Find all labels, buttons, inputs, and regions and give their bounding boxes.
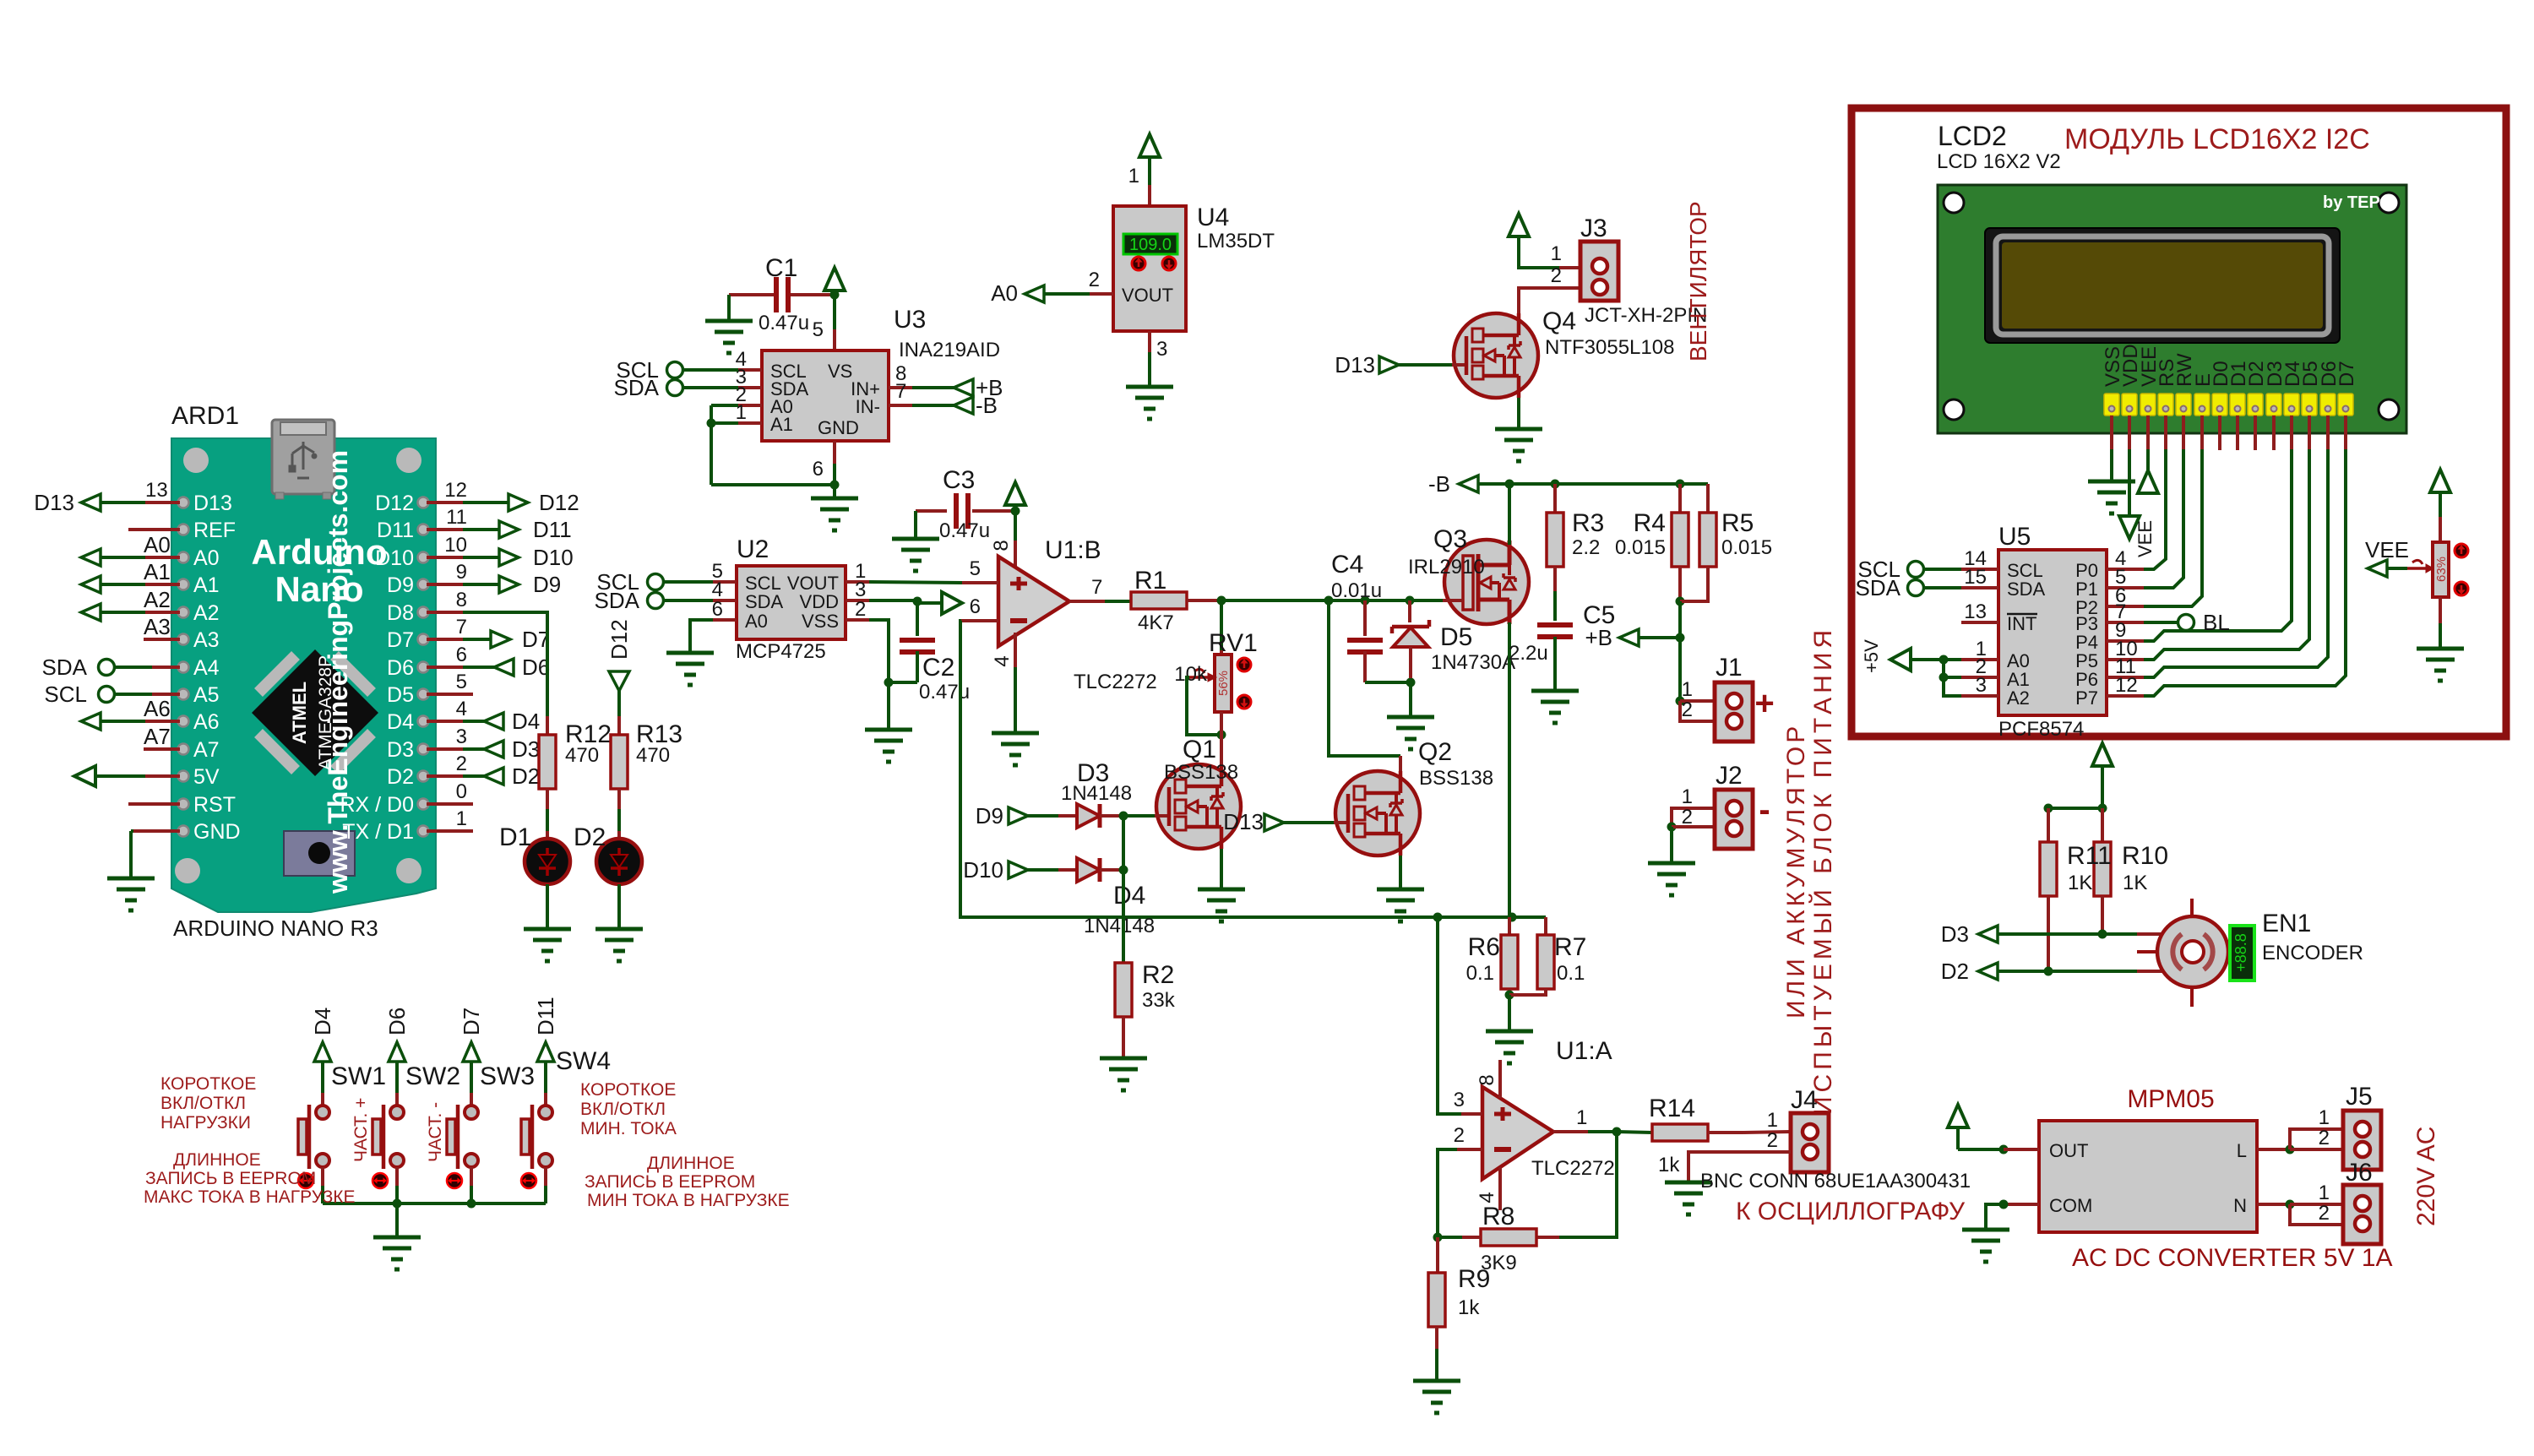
svg-text:2: 2	[1682, 698, 1693, 721]
ground	[811, 497, 858, 501]
wire	[1553, 484, 1557, 513]
junction	[1406, 678, 1416, 687]
junction	[1433, 1233, 1443, 1242]
ground	[1387, 715, 1434, 720]
wire D12 to R13	[617, 691, 621, 716]
wire D13	[145, 501, 180, 504]
svg-text:BL: BL	[2203, 610, 2230, 635]
svg-text:R3: R3	[1572, 509, 1604, 537]
junction	[707, 419, 716, 428]
net flag D13	[1264, 814, 1284, 831]
svg-text:A0: A0	[144, 532, 171, 557]
svg-text:ВКЛ/ОТКЛ: ВКЛ/ОТКЛ	[160, 1094, 246, 1113]
display 109.0	[1123, 234, 1177, 254]
connector J5	[2343, 1111, 2381, 1170]
wire	[2387, 567, 2407, 570]
svg-text:ATMEL: ATMEL	[289, 682, 310, 744]
svg-text:TLC2272: TLC2272	[1531, 1157, 1615, 1180]
wire	[972, 509, 1011, 513]
terminal SDA	[667, 380, 683, 396]
power +5V	[824, 268, 845, 291]
wire	[321, 1062, 324, 1093]
svg-text:D13: D13	[34, 490, 74, 515]
net flag D4	[484, 713, 503, 730]
wire	[2101, 896, 2104, 934]
wire	[2439, 597, 2442, 623]
wire	[1553, 567, 1557, 591]
junction	[1676, 697, 1685, 706]
svg-text:D12: D12	[375, 492, 414, 515]
potentiometer RV1	[1215, 655, 1232, 712]
svg-text:SDA: SDA	[745, 591, 784, 612]
power VEE	[2119, 516, 2140, 539]
net flag VEE	[2368, 560, 2387, 577]
wire	[1944, 676, 1961, 679]
wire	[1944, 677, 1961, 696]
svg-text:A3: A3	[144, 614, 171, 639]
wire P3 BL	[2144, 621, 2178, 624]
wire	[2290, 1148, 2343, 1151]
wire	[729, 293, 777, 296]
svg-text:10k: 10k	[1174, 663, 1208, 686]
wire	[1220, 849, 1223, 889]
connector J4	[1791, 1113, 1829, 1172]
svg-text:COM: COM	[2049, 1195, 2092, 1216]
transistor Q3	[1443, 540, 1529, 624]
svg-text:1: 1	[1767, 1109, 1778, 1132]
wire A0/A1 to gnd	[711, 404, 738, 407]
resistor R11	[2040, 842, 2057, 896]
pin 10	[2107, 658, 2144, 661]
wire	[427, 829, 473, 833]
junction	[830, 291, 840, 300]
svg-text:4: 4	[991, 655, 1014, 666]
wire stub D3	[2272, 416, 2276, 450]
wire	[1678, 484, 1682, 513]
ground	[595, 927, 643, 932]
button up	[1237, 658, 1251, 671]
junction	[467, 1199, 476, 1209]
wire	[544, 1062, 547, 1093]
wire drain	[1508, 484, 1511, 545]
svg-text:D4: D4	[310, 1008, 335, 1035]
wire	[2048, 970, 2137, 973]
terminal SCL	[648, 574, 664, 590]
svg-text:NTF3055L108: NTF3055L108	[1545, 336, 1674, 359]
svg-text:VEE: VEE	[2365, 537, 2409, 562]
net flag D7	[463, 1042, 480, 1062]
svg-text:C1: C1	[765, 254, 797, 282]
junction	[1551, 480, 1560, 489]
svg-text:J4: J4	[1791, 1086, 1818, 1114]
pin 1	[846, 580, 869, 584]
svg-text:0.1: 0.1	[1557, 962, 1585, 985]
svg-text:D12: D12	[539, 490, 579, 515]
encoder EN1	[2137, 899, 2228, 1007]
svg-text:2: 2	[2319, 1127, 2330, 1149]
wiper	[1189, 676, 1208, 679]
svg-text:D8: D8	[387, 601, 414, 625]
power +5V	[1890, 649, 1911, 671]
svg-text:VDD: VDD	[800, 591, 839, 612]
wire	[1100, 868, 1119, 872]
svg-text:1N4148: 1N4148	[1061, 782, 1132, 805]
svg-text:REF: REF	[193, 519, 236, 542]
potentiometer VEE	[2433, 542, 2449, 597]
wire gate pulldown	[1122, 870, 1125, 963]
svg-text:2: 2	[855, 598, 866, 621]
svg-text:A1: A1	[144, 559, 171, 584]
wire VDD	[869, 599, 917, 602]
button up	[2455, 544, 2468, 557]
resistor R13	[611, 735, 628, 789]
svg-text:GND: GND	[818, 417, 859, 438]
wire	[395, 1167, 399, 1186]
svg-text:D11: D11	[377, 519, 414, 542]
wire	[1105, 600, 1131, 603]
op-amp U1:A	[1482, 1087, 1553, 1179]
svg-text:C4: C4	[1331, 551, 1363, 579]
wire	[664, 580, 713, 584]
wire	[916, 601, 919, 636]
junction	[393, 1199, 402, 1209]
junction	[2098, 930, 2107, 939]
wire D9	[427, 583, 463, 586]
LCD pad VEE	[2140, 394, 2156, 416]
net flag D11	[499, 521, 519, 538]
power	[2138, 470, 2158, 493]
resistor R9	[1428, 1273, 1445, 1327]
wire	[1187, 599, 1217, 602]
button down	[1162, 257, 1176, 270]
resistor R3	[1547, 513, 1563, 567]
wire	[1436, 1237, 1439, 1273]
svg-text:-: -	[1759, 791, 1770, 829]
wire -in down	[960, 621, 1433, 917]
wire	[664, 599, 713, 602]
wire	[617, 884, 621, 929]
wire	[2008, 1203, 2039, 1206]
power flag	[942, 592, 962, 614]
wire	[1014, 667, 1017, 733]
LCD pad D7	[2338, 394, 2353, 416]
svg-text:MPM05: MPM05	[2127, 1085, 2214, 1113]
junction	[1406, 596, 1415, 606]
junction	[2286, 1200, 2295, 1209]
net flag D13	[1379, 356, 1399, 373]
LCD module LCD2	[1938, 185, 2406, 433]
wire	[1220, 600, 1223, 650]
svg-text:C3: C3	[943, 466, 975, 494]
ground	[2088, 480, 2135, 484]
pin 4	[2107, 568, 2144, 571]
wire P1	[2144, 586, 2147, 589]
LCD pad D2	[2248, 394, 2263, 416]
wire	[1706, 484, 1710, 513]
svg-text:INA219AID: INA219AID	[899, 339, 1000, 361]
svg-text:63%: 63%	[2434, 557, 2449, 582]
connector J2	[1715, 790, 1753, 849]
svg-text:5: 5	[813, 318, 824, 341]
svg-text:0: 0	[456, 780, 467, 803]
svg-text:МОДУЛЬ LCD16X2 I2C: МОДУЛЬ LCD16X2 I2C	[2064, 123, 2370, 155]
wire VSS	[869, 620, 889, 682]
svg-text:0.1: 0.1	[1466, 962, 1494, 985]
svg-text:R4: R4	[1634, 509, 1666, 537]
svg-text:SDA: SDA	[1856, 575, 1901, 600]
wire	[1363, 600, 1367, 636]
net flag D3	[1978, 926, 1998, 943]
ground	[1531, 689, 1579, 693]
net flag +B	[1619, 629, 1639, 646]
svg-text:ЗАПИСЬ В EEPROM: ЗАПИСЬ В EEPROM	[145, 1169, 316, 1188]
svg-text:RST: RST	[193, 793, 236, 817]
diode D4	[1077, 858, 1100, 882]
junction	[1939, 655, 1949, 665]
junction	[1999, 1200, 2009, 1209]
wire	[787, 293, 830, 296]
svg-text:A5: A5	[193, 683, 220, 707]
svg-text:C2: C2	[922, 654, 954, 682]
wire	[617, 789, 621, 809]
wire	[1028, 814, 1058, 818]
connector J3	[1580, 242, 1618, 301]
wire D7	[2344, 416, 2347, 449]
svg-text:1: 1	[456, 807, 467, 830]
svg-text:RV1: RV1	[1209, 629, 1258, 657]
wire	[2290, 1129, 2343, 1149]
wire D5	[2308, 416, 2311, 449]
svg-text:A7: A7	[193, 738, 220, 762]
touch icon	[521, 1173, 536, 1188]
power supply MPM05	[2039, 1121, 2257, 1232]
svg-text:2: 2	[1454, 1124, 1465, 1147]
ground	[1665, 1181, 1712, 1185]
wire	[1708, 1131, 1743, 1134]
wire L	[2257, 1148, 2286, 1151]
svg-text:D4: D4	[387, 710, 414, 734]
touch icon	[447, 1173, 462, 1188]
svg-text:D7: D7	[2336, 361, 2358, 387]
capacitor C1	[774, 277, 779, 312]
power	[1005, 482, 1025, 505]
net flag D13	[81, 494, 101, 511]
svg-text:D6: D6	[387, 656, 414, 680]
wire	[1519, 288, 1580, 319]
svg-text:6: 6	[970, 595, 981, 618]
svg-text:SW3: SW3	[480, 1062, 535, 1090]
svg-text:МАКС ТОКА В НАГРУЗКЕ: МАКС ТОКА В НАГРУЗКЕ	[144, 1187, 356, 1207]
pin 3	[1461, 1112, 1482, 1116]
wire	[1544, 917, 1547, 935]
svg-text:Q3: Q3	[1433, 525, 1467, 553]
svg-text:D4: D4	[1113, 882, 1145, 910]
junction	[1676, 633, 1685, 643]
svg-text:12: 12	[444, 479, 467, 502]
junction	[830, 481, 840, 490]
svg-text:D3: D3	[387, 738, 414, 762]
svg-text:Q4: Q4	[1542, 307, 1576, 335]
wire D8 to R12	[427, 611, 463, 614]
ground	[705, 319, 753, 323]
wire RS	[2164, 416, 2167, 449]
net flag D3	[484, 741, 503, 758]
net flag D10	[1009, 861, 1028, 878]
ground	[524, 927, 571, 932]
switch SW2	[372, 1105, 404, 1169]
svg-text:EN1: EN1	[2262, 910, 2311, 937]
wire	[1517, 398, 1520, 429]
pin 6	[2107, 605, 2144, 608]
wire	[1680, 567, 1708, 601]
wire	[1672, 825, 1715, 829]
wire D11	[427, 528, 463, 531]
svg-text:1k: 1k	[1458, 1296, 1480, 1319]
wire VEE	[2146, 416, 2150, 449]
pin 12	[2107, 694, 2144, 698]
junction	[2044, 804, 2053, 813]
svg-text:VOUT: VOUT	[1122, 285, 1173, 306]
wire	[1122, 1017, 1125, 1058]
wire	[1678, 567, 1682, 597]
svg-text:НАГРУЗКИ: НАГРУЗКИ	[160, 1113, 251, 1133]
button up	[1132, 257, 1145, 270]
LCD pad VSS	[2104, 394, 2119, 416]
svg-text:J2: J2	[1716, 762, 1743, 790]
net flag D12	[508, 494, 528, 511]
svg-text:TX / D1: TX / D1	[342, 820, 414, 844]
svg-text:D3: D3	[512, 736, 540, 762]
net flag A0	[81, 549, 101, 566]
svg-text:6: 6	[813, 458, 824, 481]
pin 6	[833, 441, 836, 464]
capacitor C2	[900, 638, 935, 643]
svg-text:56%: 56%	[1216, 671, 1231, 696]
wire VOUT to U1:B	[869, 582, 962, 583]
wire to Q2 gate	[1329, 600, 1400, 756]
transistor Q1	[1155, 764, 1241, 849]
svg-text:D3: D3	[1941, 921, 1969, 947]
svg-text:SDA: SDA	[42, 655, 88, 680]
wire SCL	[152, 693, 180, 696]
svg-text:RX / D0: RX / D0	[340, 793, 414, 817]
pin 5	[713, 580, 737, 584]
wire	[2439, 492, 2442, 517]
svg-text:4K7: 4K7	[1138, 611, 1174, 634]
wire	[2290, 1203, 2343, 1206]
svg-text:IRL2910: IRL2910	[1408, 556, 1485, 579]
pin 11	[2107, 676, 2144, 679]
wire D2	[427, 774, 463, 778]
pin 5	[2107, 586, 2144, 589]
touch icon	[298, 1173, 313, 1188]
svg-text:3: 3	[456, 725, 467, 748]
LED D1	[525, 839, 570, 884]
svg-text:0.47u: 0.47u	[939, 519, 990, 542]
svg-text:2: 2	[1767, 1129, 1778, 1152]
terminal SDA	[99, 660, 115, 676]
svg-text:6: 6	[456, 644, 467, 666]
wire	[1409, 682, 1412, 717]
wire	[1399, 363, 1452, 367]
svg-text:J1: J1	[1716, 654, 1743, 682]
svg-text:К ОСЦИЛЛОГРАФУ: К ОСЦИЛЛОГРАФУ	[1736, 1198, 1966, 1225]
svg-text:D13: D13	[193, 492, 232, 515]
junction	[1119, 866, 1128, 875]
terminal BL	[2178, 615, 2194, 631]
LCD pad D6	[2320, 394, 2336, 416]
power	[1948, 1105, 1968, 1127]
svg-text:SW4: SW4	[556, 1047, 611, 1075]
ground	[107, 877, 155, 881]
svg-text:D5: D5	[1440, 623, 1472, 651]
svg-text:D1: D1	[499, 823, 531, 851]
wire D6	[2326, 416, 2330, 449]
svg-text:13: 13	[1964, 600, 1987, 623]
svg-text:A2: A2	[2007, 687, 2030, 709]
power	[2430, 470, 2450, 492]
net flag D7	[491, 631, 510, 648]
svg-text:7: 7	[456, 616, 467, 638]
svg-text:VEE: VEE	[2134, 520, 2156, 557]
net flag A6	[81, 713, 101, 730]
zener diode D5	[1408, 600, 1411, 622]
svg-text:BNC CONN 68UE1AA300431: BNC CONN 68UE1AA300431	[1700, 1170, 1971, 1193]
svg-text:1N4148: 1N4148	[1084, 915, 1155, 937]
svg-text:LCD2: LCD2	[1938, 121, 2007, 151]
wire stub D1	[2236, 416, 2239, 450]
wire	[544, 1167, 547, 1186]
junction	[2044, 967, 2053, 976]
wire	[1508, 917, 1511, 935]
svg-text:ARD1: ARD1	[171, 402, 239, 430]
svg-text:+5V: +5V	[1861, 639, 1882, 673]
wire	[1220, 712, 1223, 731]
wire	[1435, 1327, 1438, 1349]
svg-text:ENCODER: ENCODER	[2262, 942, 2363, 964]
pin 15	[1961, 586, 1998, 589]
wire	[1559, 266, 1580, 269]
net flag D10	[499, 549, 519, 566]
resistor R2	[1115, 963, 1132, 1017]
svg-text:SDA: SDA	[595, 588, 640, 613]
svg-text:SCL: SCL	[44, 682, 87, 707]
svg-text:2.2u: 2.2u	[1509, 642, 1548, 665]
wire wiper short	[1187, 677, 1217, 735]
wire D10	[427, 556, 463, 559]
junction	[2286, 1145, 2295, 1154]
capacitor C4	[1347, 638, 1383, 643]
wire	[1508, 995, 1511, 1031]
power	[1509, 214, 1529, 236]
wire P4	[2144, 639, 2147, 643]
op-amp U1:B	[998, 557, 1069, 646]
junction	[1676, 480, 1685, 489]
pin 3	[846, 599, 869, 602]
svg-text:470: 470	[636, 744, 670, 767]
svg-text:15: 15	[1964, 566, 1987, 589]
svg-text:R11: R11	[2067, 842, 2112, 870]
svg-text:D6: D6	[384, 1008, 410, 1035]
wire	[1122, 816, 1125, 870]
wire	[1942, 660, 1945, 677]
pin 8	[1498, 1060, 1502, 1098]
svg-text:A6: A6	[193, 710, 220, 734]
touch icon	[372, 1173, 388, 1188]
wire RW	[2182, 416, 2185, 449]
wire -B rail	[1478, 482, 1708, 486]
svg-text:J3: J3	[1580, 215, 1607, 242]
